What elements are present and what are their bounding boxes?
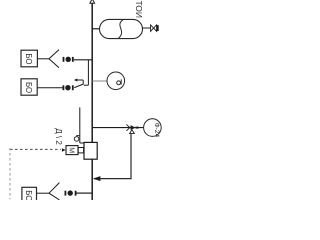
switch blade <box>74 84 83 88</box>
dashed control line vertical <box>9 148 11 199</box>
node flow arrow open <box>126 125 129 128</box>
wire valve1 to main <box>74 59 93 61</box>
wire tee to tank <box>92 28 100 30</box>
svg-text:ТОИ: ТОИ <box>134 1 144 19</box>
arrow left (actuator) <box>77 79 84 81</box>
label б <box>74 137 79 142</box>
node branch triangle under line <box>130 130 135 134</box>
svg-text:Ф-24: Ф-24 <box>153 123 160 138</box>
wire box3 to fork <box>37 192 50 194</box>
wire box1 to fork <box>37 58 49 60</box>
wire check-valve line to pump circle <box>92 127 144 129</box>
valve V5 (bar-dot-bar) <box>65 191 67 196</box>
wire valve3 to main <box>77 192 93 194</box>
node fork connector 1 <box>49 50 59 59</box>
svg-text:БО: БО <box>24 190 33 200</box>
valve V2 (bar-dot-bar) <box>63 85 65 90</box>
svg-text:БО: БО <box>24 53 33 64</box>
wire box2 to valve2 <box>37 87 62 89</box>
valve V1 (bar-dot-bar) <box>63 57 65 62</box>
connector coupling <box>78 148 83 153</box>
valve V4 drain bowtie <box>151 25 154 31</box>
wire bypass down <box>130 134 132 179</box>
pump circle A-24 <box>144 119 162 137</box>
wire main vertical pipe <box>91 3 93 200</box>
valve body box on main <box>84 142 97 159</box>
instrument circle PI <box>107 72 125 90</box>
node return arrow filled <box>93 176 101 181</box>
tank T1 (diaphragm accumulator capsule) <box>100 19 143 38</box>
dashed control line horizontal <box>10 148 61 150</box>
end cap <box>157 25 159 31</box>
box B3 (instrument square, cut at bottom) <box>22 187 37 202</box>
valve V3 check (filled) <box>131 125 136 130</box>
wire stub down from valve1 line <box>87 60 89 85</box>
wire bypass return <box>94 178 132 180</box>
box B1 (instrument square) <box>21 50 37 67</box>
box B2 (instrument square) <box>21 79 37 95</box>
svg-text:Д\2: Д\2 <box>54 128 63 147</box>
tank membrane <box>119 20 124 39</box>
svg-text:М: М <box>68 147 75 153</box>
wire tank outlet <box>143 27 151 29</box>
node control arrow <box>62 148 66 151</box>
motor box M <box>66 146 78 155</box>
svg-text:БО: БО <box>24 82 33 93</box>
PI inner label <box>120 79 122 84</box>
label stem line <box>79 107 81 143</box>
node fork connector 3 <box>49 183 59 194</box>
node top flow arrow (open triangle) <box>90 0 95 3</box>
wire instrument line to PI <box>92 80 107 82</box>
